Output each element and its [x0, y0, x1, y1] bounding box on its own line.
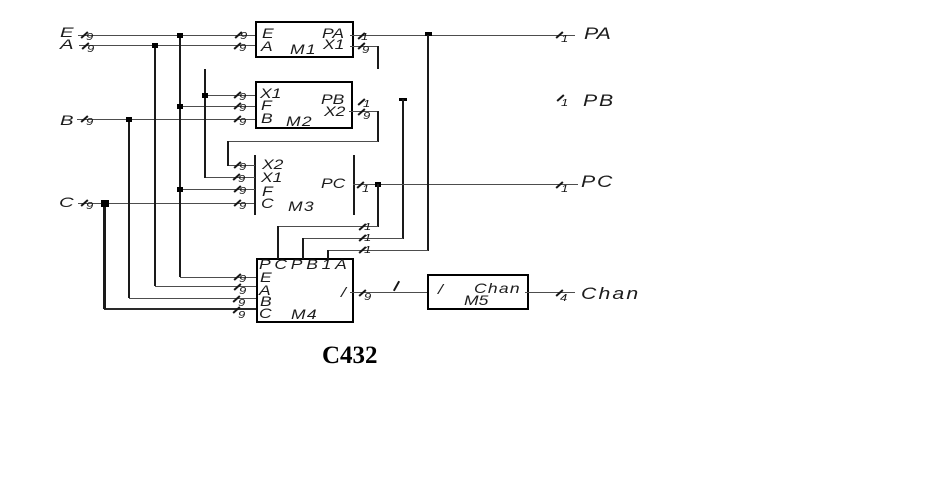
junction dot A wire x155: [152, 43, 158, 48]
wire M4 B input: [129, 298, 256, 299]
wire M3 X1 input: [205, 177, 255, 178]
wire A main horizontal: [79, 45, 255, 46]
vertical PB drop into M4: [302, 238, 304, 259]
wire M1 X1 output stub: [350, 46, 378, 47]
bus slash 9 on M2 X1 input: [233, 91, 241, 99]
bus slash 1 after M1 PA pin: [357, 32, 365, 40]
module M4 box: [256, 258, 354, 323]
vertical X2 wrap right: [377, 111, 379, 142]
wire PB to M4 horizontal: [303, 238, 403, 239]
wire B main horizontal: [77, 119, 255, 120]
bus slash 9 on M4 A input: [233, 283, 241, 291]
bus slash 9 on C wire: [80, 199, 88, 207]
module M3 right edge: [353, 155, 355, 215]
vertical PB net x=403: [402, 99, 404, 239]
pin label PB of M2: [321, 92, 344, 106]
bus slash 1 before PC label: [555, 181, 563, 189]
wire C main horizontal: [78, 203, 255, 204]
pin row label PCPB1A of M4: [259, 257, 351, 271]
junction dot X1 input M2: [202, 93, 208, 98]
bus slash 9 on M1 A input: [233, 42, 241, 50]
bus slash 1 at M2 PB pin: [357, 98, 365, 106]
bus slash 9 on M3 X2 input: [233, 161, 241, 169]
bus slash 9 on M2 B input: [233, 115, 241, 123]
wire PC to M4 horizontal: [278, 226, 378, 227]
net label Chan: [581, 285, 640, 302]
bus slash 9 on M2 F input: [233, 102, 241, 110]
net label PC: [581, 173, 614, 190]
pin label B of M2: [261, 111, 273, 125]
wire M2 F input: [180, 106, 255, 107]
vertical X1 net x=205: [204, 69, 206, 178]
bus slash 9 on M3 F input: [233, 185, 241, 193]
vertical PA net x=428: [427, 35, 429, 251]
module label M5: [464, 293, 488, 307]
bus slash 9 on M2 X2 output: [357, 108, 365, 116]
vertical PA drop into M4: [327, 250, 329, 259]
vertical PC drop into M4: [277, 226, 279, 259]
title C432: [322, 342, 378, 370]
bus slash 1 after M3 PC pin: [356, 181, 364, 189]
wire M4 output to M5: [350, 292, 427, 293]
pin label E of M4: [260, 270, 272, 284]
wire M3 X2 input: [228, 165, 255, 166]
wire E main horizontal: [78, 35, 255, 36]
node B label: [60, 113, 74, 127]
bus slash 9 on M4 E input: [233, 273, 241, 281]
T-cap PB net top: [399, 98, 407, 101]
wire M2 X2 output stub: [349, 111, 378, 112]
module label M2: [286, 114, 313, 128]
pin label F of M3: [262, 184, 273, 198]
module M2 box: [255, 81, 353, 129]
bus slash 1 before PA label: [555, 31, 563, 39]
bus slash 9 on M1 E input: [234, 31, 242, 39]
pin label PC of M3: [321, 176, 345, 190]
wire PC output of M3: [353, 184, 578, 185]
pin label C of M3: [261, 196, 274, 210]
module label M3: [288, 199, 315, 213]
bus slash 1 on PA-M4 wire: [358, 246, 366, 254]
pin label A of M4: [259, 283, 271, 297]
module label M4: [291, 307, 318, 321]
pin label E of M1: [262, 26, 274, 40]
wire M2 X1 input: [205, 95, 255, 96]
junction dot PC net x378: [375, 182, 381, 187]
bus slash 9 on M3 X1 input: [232, 173, 240, 181]
vertical E net x=180: [179, 35, 181, 277]
pin label X1 of M2: [260, 86, 281, 100]
wire M4 A input: [155, 286, 256, 287]
bus slash 9 on E wire: [80, 31, 88, 39]
pin label X1 of M1: [323, 37, 344, 51]
bus slash 9 on M4 B input: [232, 295, 240, 303]
junction dot E wire x180: [177, 33, 183, 38]
wire PA to M4 horizontal: [328, 250, 428, 251]
pin label Chan of M5: [474, 281, 521, 295]
vertical PC net x=378: [377, 184, 379, 227]
bus slash 1 before PB label: [556, 94, 564, 102]
node C label: [59, 195, 74, 209]
net label PB: [583, 92, 615, 109]
pin label X2 of M2: [324, 104, 345, 118]
module M5 box: [427, 274, 529, 310]
pin label B of M4: [260, 294, 272, 308]
junction dot PA net x428: [425, 32, 432, 36]
module M1 box: [255, 21, 354, 58]
pin label A of M1: [261, 39, 273, 53]
pin label F of M2: [261, 98, 272, 112]
pin label / input of M5: [438, 282, 443, 296]
bus slash / on M4 output: [393, 280, 400, 291]
vertical M1 X1 stub down: [377, 46, 379, 69]
pin label C of M4: [259, 306, 272, 320]
bus slash 4 on M5 output: [555, 289, 563, 297]
vertical B net x=129: [128, 119, 130, 298]
wire M5 output: [525, 292, 575, 293]
bus slash 9 on A wire: [81, 42, 89, 50]
vertical X2 wrap left: [227, 141, 229, 166]
vertical C net x=105 thick: [103, 203, 106, 309]
bus slash 9 on M4 output: [358, 289, 366, 297]
bus slash 1 on PC-M4 wire: [358, 223, 366, 231]
pin label X2 of M3: [262, 157, 283, 171]
node A label: [60, 37, 74, 51]
junction dot F input M3: [177, 187, 183, 192]
pin label X1 of M3: [261, 170, 282, 184]
junction dot B wire x129: [126, 117, 132, 122]
wire M4 C input (thick): [104, 308, 256, 310]
junction dot C wire x105: [101, 200, 109, 207]
vertical A net x=155: [154, 45, 156, 286]
wire PA output of M1: [350, 35, 575, 36]
wire M3 F input: [180, 189, 255, 190]
bus slash 9 on M1 X1 output: [357, 42, 365, 50]
node E label: [60, 25, 74, 39]
bus slash 9 on M4 C input: [232, 306, 240, 314]
wire X2 wrap bottom: [228, 141, 378, 142]
wire M4 E input: [180, 277, 256, 278]
bus slash 9 on M3 C input: [233, 199, 241, 207]
bus slash 9 on B wire: [80, 115, 88, 123]
pin label / output of M4: [341, 285, 346, 299]
net label PA: [584, 25, 611, 42]
bus slash 1 on PB-M4 wire: [358, 234, 366, 242]
junction dot F input M2: [177, 104, 183, 109]
module label M1: [290, 42, 317, 56]
module M3 left edge: [254, 155, 256, 215]
pin label PA of M1: [322, 26, 344, 40]
